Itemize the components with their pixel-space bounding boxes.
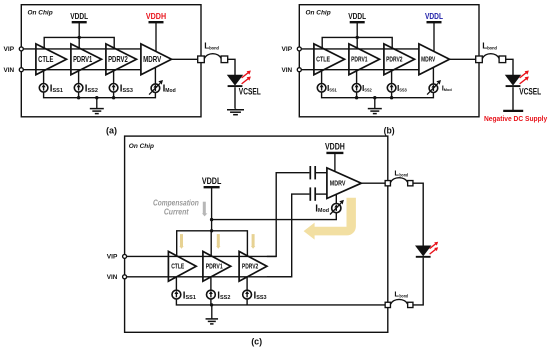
ground chip ground (c) [206, 305, 219, 324]
bond pad P2 top (c) [408, 181, 413, 186]
svg-text:VDDL: VDDL [202, 176, 222, 186]
current source ISS1 (c) [172, 277, 181, 299]
svg-text:SS2: SS2 [220, 295, 230, 301]
amplifier CTLE (c) [168, 251, 196, 281]
svg-text:(b): (b) [384, 126, 395, 136]
wire VIP net (c) [125, 255, 277, 257]
svg-text:PDRV1: PDRV1 [351, 57, 367, 64]
svg-text:(a): (a) [106, 126, 117, 136]
junction dot VDDL rail (b) [356, 36, 359, 39]
current source ISS2 (a) [74, 71, 83, 92]
svg-text:PDRV2: PDRV2 [242, 262, 258, 271]
amplifier PDRV2 (b) [384, 44, 415, 75]
amplifier CTLE (a) [36, 44, 67, 75]
junction dot ISS2 (a) [77, 96, 80, 99]
negative supply bar (b) [503, 110, 523, 112]
current arrow into PDRV2 (c) [251, 234, 255, 249]
compensation current big arrow (c) [304, 198, 356, 240]
bond-wire inductor Lbond (a) [204, 54, 221, 59]
label IMod (a) [163, 83, 176, 94]
svg-text:VDDH: VDDH [146, 11, 166, 21]
svg-text:SS2: SS2 [88, 88, 98, 94]
svg-text:MDRV: MDRV [143, 54, 161, 64]
bond pad P2 bottom (c) [408, 302, 413, 307]
wire VIP net (b) [299, 48, 419, 50]
svg-text:bond: bond [209, 46, 219, 52]
wire VDDL stem (a) [78, 37, 80, 48]
VDDL rail bracket (b) [322, 37, 392, 48]
svg-text:MDRV: MDRV [330, 179, 346, 188]
current source ISS3 (c) [243, 277, 252, 299]
current source ISS2 (c) [207, 277, 216, 299]
supply VDDL of MDRV (b) [425, 11, 443, 51]
laser emission arrows (b) [520, 71, 529, 84]
wire ISS2 stub (b) [356, 92, 358, 98]
label ISS2 (a) [85, 83, 98, 94]
junction dot ISS2 (b) [355, 96, 358, 99]
label ISS2 (b) [362, 83, 372, 93]
wire VIN net (b) [299, 69, 419, 71]
label IMod (c) [315, 203, 329, 214]
wire VIN net (a) [21, 69, 141, 71]
junction dot ground (c) [210, 303, 213, 306]
svg-text:VDDL: VDDL [348, 11, 366, 21]
on-chip box (c) [125, 136, 388, 332]
svg-text:VDDL: VDDL [70, 11, 88, 21]
svg-text:SS2: SS2 [364, 87, 372, 92]
wire ISS2 stub (c) [210, 299, 212, 305]
wire bracket mid stem (c) [210, 231, 212, 256]
amplifier MDRV (a) [141, 44, 172, 75]
current source ISS1 (a) [39, 71, 48, 92]
wire VCSEL cathode to bottom bond (c) [413, 258, 423, 305]
amplifier PDRV1 (a) [71, 44, 102, 75]
wire VCSEL cathode (a) [234, 87, 236, 108]
svg-text:On Chip: On Chip [28, 9, 53, 16]
svg-text:bond: bond [399, 293, 408, 298]
supply VDDL (c) [202, 176, 222, 231]
bond-wire inductor Lbond (b) [482, 54, 499, 59]
svg-text:SS3: SS3 [399, 87, 407, 92]
current source ISS1 (b) [317, 71, 326, 92]
wire top pad to VCSEL (c) [413, 183, 423, 246]
wire ISS2 stub (a) [78, 92, 80, 98]
laser emission arrows (c) [430, 242, 439, 254]
terminal VIN (c) [123, 275, 127, 279]
bond pad P2 (b) [499, 56, 506, 63]
current source ISS3 (a) [109, 71, 118, 92]
label Lbond top (c) [394, 169, 408, 178]
bond pad P1 (a) [198, 56, 205, 63]
wire compensation current path (c) [212, 213, 337, 220]
svg-text:VIN: VIN [4, 67, 15, 74]
svg-text:SS1: SS1 [53, 88, 63, 94]
svg-text:Current: Current [164, 206, 190, 216]
bond-wire inductor Lbond bottom (c) [391, 299, 408, 304]
amplifier CTLE (b) [314, 44, 345, 75]
amplifier PDRV1 (c) [203, 251, 231, 281]
svg-text:VCSEL: VCSEL [239, 87, 261, 97]
label ISS1 (c) [183, 290, 196, 301]
label Lbond (a) [204, 41, 219, 52]
wire VCSEL cathode (b) [512, 87, 514, 110]
junction dot VDDL rail (c) [210, 229, 213, 232]
current source IMod (a) [149, 68, 163, 95]
svg-text:CTLE: CTLE [171, 262, 184, 271]
svg-text:VIN: VIN [107, 274, 118, 281]
svg-text:CTLE: CTLE [38, 54, 54, 64]
svg-text:PDRV1: PDRV1 [73, 54, 92, 64]
svg-text:SS3: SS3 [123, 88, 133, 94]
current source ISS2 (b) [352, 71, 361, 92]
ground VCSEL ground (a) [227, 109, 244, 115]
label Compensation Current (c) [153, 198, 199, 217]
current arrow into CTLE (c) [179, 234, 183, 249]
label ISS1 (b) [327, 83, 337, 93]
svg-text:VIP: VIP [282, 46, 293, 53]
amplifier PDRV2 (a) [106, 44, 137, 75]
label ISS3 (a) [120, 83, 133, 94]
wire ground rail (c) [176, 299, 384, 305]
svg-text:Mod: Mod [318, 208, 329, 214]
wire PDRV2 outP riser (c) [267, 173, 310, 257]
on-chip box (b) [299, 5, 479, 117]
svg-text:VIN: VIN [282, 67, 293, 74]
current source IMod (c) [330, 194, 344, 215]
bond pad P1 top (c) [385, 181, 390, 186]
svg-text:MDRV: MDRV [421, 57, 435, 64]
junction dot ground stem (a) [95, 96, 98, 99]
amplifier PDRV2 (c) [239, 251, 267, 281]
supply VDDH (c) [325, 142, 345, 172]
terminal VIP (b) [297, 47, 301, 51]
VCSEL diode (b) [506, 75, 521, 86]
svg-text:bond: bond [399, 173, 408, 178]
capacitor C2 (c) [310, 187, 327, 200]
wire pad to VCSEL (b) [506, 59, 513, 75]
svg-text:VIP: VIP [107, 254, 118, 261]
amplifier MDRV (b) [419, 44, 450, 75]
junction dot VDDL rail (a) [78, 36, 81, 39]
terminal VIP (a) [19, 47, 23, 51]
wire VIP net (a) [21, 48, 141, 50]
wire ground rail (b) [322, 92, 434, 98]
bond pad P2 (a) [221, 56, 228, 63]
bond pad P1 (b) [476, 56, 483, 63]
VDDL rail bracket (a) [44, 37, 114, 48]
wire ISS3 stub (a) [113, 92, 115, 98]
amplifier PDRV1 (b) [349, 44, 380, 75]
wire MDRV output (a) [172, 58, 198, 60]
laser emission arrows (a) [242, 71, 251, 84]
label ISS2 (c) [217, 290, 230, 301]
svg-text:(c): (c) [251, 337, 262, 347]
svg-text:PDRV2: PDRV2 [108, 54, 128, 64]
wire MDRV output (c) [361, 182, 384, 184]
wire ISS3 stub (b) [391, 92, 393, 98]
bond-wire inductor Lbond top (c) [391, 178, 408, 183]
ground chip ground (b) [368, 98, 382, 114]
svg-text:On Chip: On Chip [306, 9, 331, 16]
svg-text:Mod: Mod [444, 88, 453, 92]
junction dot ISS3 (a) [112, 96, 115, 99]
current source IMod (b) [427, 68, 441, 95]
wire VDDL stem (b) [356, 37, 358, 48]
svg-text:SS3: SS3 [256, 295, 266, 301]
label Lbond bottom (c) [394, 289, 408, 298]
current source ISS3 (b) [387, 71, 396, 92]
junction dot ISS3 (b) [390, 96, 393, 99]
wire MDRV output (b) [450, 58, 476, 60]
svg-text:VIP: VIP [4, 46, 15, 53]
svg-text:SS1: SS1 [329, 87, 337, 92]
VDDL rail bracket (c) [177, 231, 248, 256]
junction dot compensation tap (c) [210, 218, 213, 221]
svg-text:SS1: SS1 [186, 295, 196, 301]
svg-text:Negative DC Supply: Negative DC Supply [484, 114, 548, 123]
label ISS1 (a) [50, 83, 63, 94]
label ISS3 (c) [254, 290, 267, 301]
VCSEL diode (a) [228, 75, 243, 86]
supply VDDL (b) [348, 11, 366, 38]
on-chip box (a) [21, 5, 201, 117]
compensation current arrow small (c) [202, 202, 207, 217]
VCSEL diode (c) [416, 246, 431, 257]
amplifier MDRV (c) [327, 168, 361, 199]
wire PDRV2 outN riser (c) [267, 194, 310, 277]
label ISS3 (b) [397, 83, 407, 93]
wire ISS3 stub (c) [246, 299, 248, 305]
terminal VIN (a) [19, 68, 23, 72]
terminal VIP (c) [123, 254, 127, 258]
capacitor C1 (c) [310, 166, 327, 179]
terminal VIN (b) [297, 68, 301, 72]
svg-text:PDRV1: PDRV1 [206, 262, 223, 271]
ground chip ground (a) [90, 98, 104, 114]
junction dot ground stem (b) [373, 96, 376, 99]
svg-text:CTLE: CTLE [316, 57, 330, 64]
svg-text:bond: bond [487, 46, 497, 52]
svg-text:VDDL: VDDL [425, 11, 443, 21]
wire ground rail (a) [44, 92, 156, 98]
bond pad P1 bottom (c) [385, 302, 390, 307]
wire pad to VCSEL (a) [228, 59, 235, 75]
svg-text:VCSEL: VCSEL [519, 87, 541, 97]
supply VDDL (a) [70, 11, 88, 38]
label Lbond (b) [482, 41, 497, 52]
label IMod (b) [442, 83, 453, 92]
supply VDDH of MDRV (a) [146, 11, 166, 51]
svg-text:PDRV2: PDRV2 [386, 57, 402, 64]
svg-text:VDDH: VDDH [325, 142, 345, 152]
current arrow into PDRV1 (c) [216, 234, 220, 249]
svg-text:Mod: Mod [165, 88, 175, 94]
svg-text:On Chip: On Chip [129, 143, 154, 150]
wire VIN net (c) [125, 276, 292, 278]
